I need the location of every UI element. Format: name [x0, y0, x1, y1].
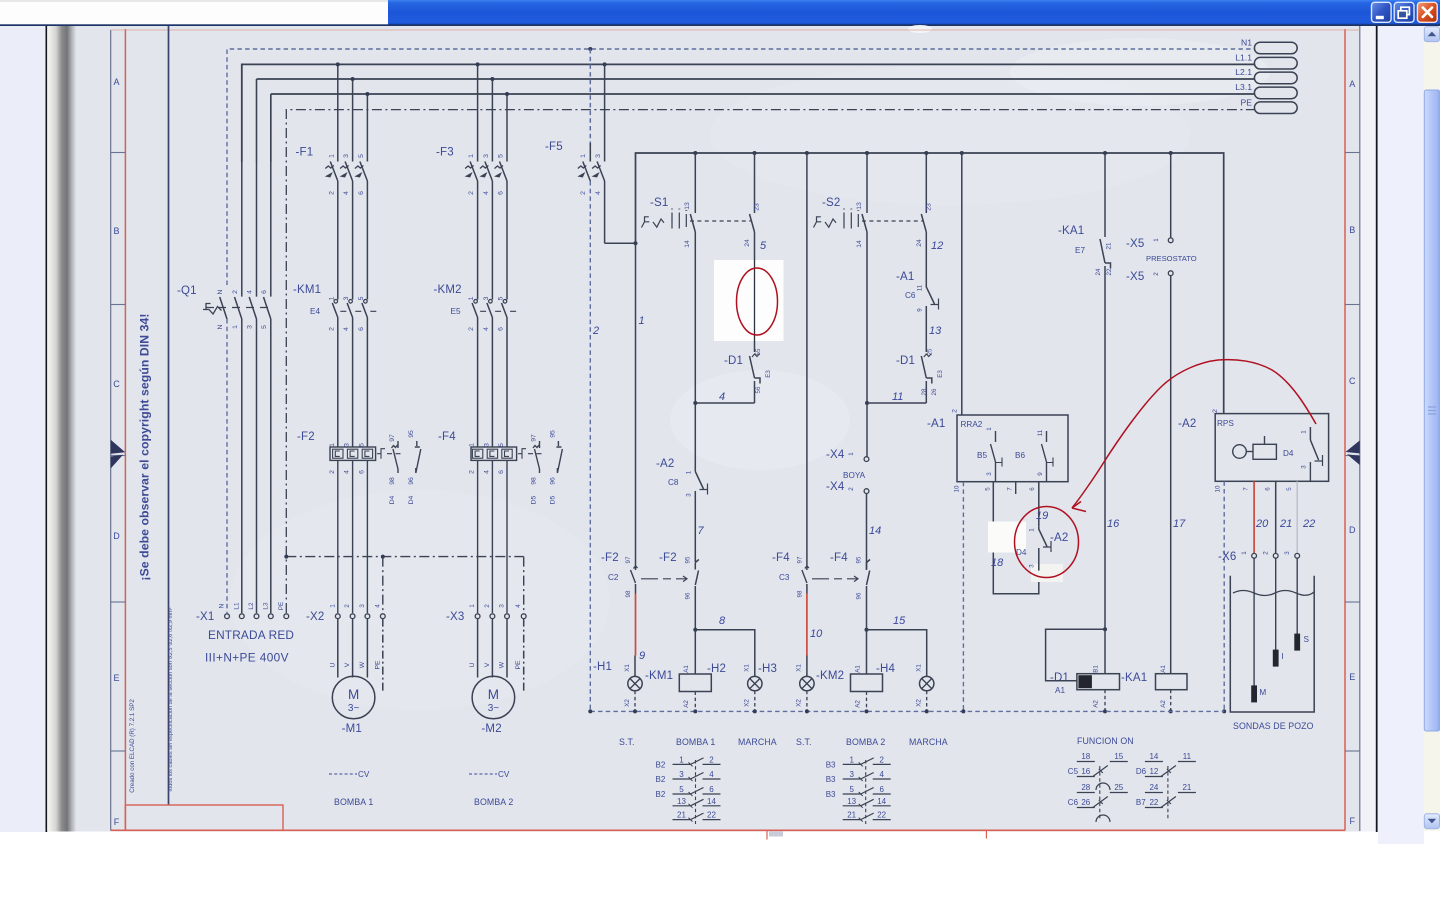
svg-text:14: 14	[684, 240, 691, 248]
svg-text:F: F	[1350, 816, 1356, 826]
svg-text:6: 6	[358, 470, 365, 474]
svg-text:6: 6	[358, 327, 365, 331]
svg-text:22: 22	[877, 811, 886, 820]
scan gutter shadow	[47, 26, 76, 832]
svg-text:V: V	[344, 662, 351, 667]
svg-text:RRA2: RRA2	[961, 420, 983, 429]
svg-text:A1: A1	[683, 665, 690, 673]
contact S1 23/24	[750, 153, 755, 352]
svg-text:4: 4	[515, 604, 522, 608]
svg-text:-H4: -H4	[876, 663, 896, 675]
svg-text:2: 2	[469, 470, 476, 474]
svg-text:20: 20	[1255, 518, 1269, 530]
svg-text:95: 95	[685, 556, 692, 563]
svg-text:B2: B2	[656, 790, 666, 799]
svg-text:CV: CV	[358, 770, 370, 779]
svg-text:3: 3	[343, 296, 350, 300]
svg-text:-KM2: -KM2	[434, 284, 462, 296]
svg-text:5: 5	[760, 240, 767, 252]
svg-text:1: 1	[469, 443, 476, 447]
svg-text:98: 98	[389, 477, 396, 485]
svg-text:-F5: -F5	[545, 141, 563, 153]
svg-text:3: 3	[686, 493, 693, 497]
svg-text:95: 95	[856, 556, 863, 563]
svg-text:B3: B3	[826, 760, 836, 769]
svg-text:12: 12	[931, 240, 943, 252]
svg-text:13: 13	[847, 797, 856, 806]
svg-text:4: 4	[483, 191, 490, 195]
svg-text:6: 6	[261, 290, 268, 294]
svg-text:A2: A2	[1093, 700, 1100, 708]
right white strip	[1378, 26, 1424, 844]
svg-text:96: 96	[408, 477, 415, 485]
title bar blue	[388, 0, 1440, 26]
svg-text:3: 3	[343, 154, 350, 158]
svg-text:5: 5	[498, 296, 505, 300]
svg-text:24: 24	[744, 239, 751, 247]
frame red line left	[124, 29, 126, 831]
svg-text:D4: D4	[408, 495, 415, 504]
S1 actuator	[642, 217, 650, 228]
svg-text:D5: D5	[549, 495, 556, 504]
svg-text:3: 3	[595, 154, 602, 158]
title bar bottom border	[0, 24, 1440, 26]
svg-text:X2: X2	[624, 699, 631, 707]
svg-text:-S2: -S2	[822, 197, 841, 209]
svg-text:X1: X1	[744, 664, 751, 672]
svg-text:-A1: -A1	[927, 418, 946, 430]
svg-text:12: 12	[1149, 767, 1158, 776]
svg-text:U: U	[329, 662, 336, 667]
svg-text:28: 28	[1081, 783, 1090, 792]
svg-text:1: 1	[848, 452, 855, 456]
svg-text:U: U	[469, 662, 476, 667]
svg-text:-X4: -X4	[826, 481, 845, 493]
svg-text:15: 15	[1114, 752, 1123, 761]
svg-text:6: 6	[1029, 487, 1036, 491]
svg-text:96: 96	[856, 592, 863, 599]
svg-text:-M1: -M1	[342, 723, 362, 735]
svg-text:L2: L2	[248, 602, 255, 610]
svg-text:CV: CV	[498, 770, 510, 779]
svg-text:25: 25	[927, 348, 934, 355]
right black page edge	[1376, 26, 1378, 832]
svg-text:N: N	[217, 289, 224, 294]
fold triangle left	[111, 440, 126, 469]
svg-text:-F3: -F3	[436, 147, 454, 159]
svg-text:26: 26	[931, 388, 938, 395]
bus PE (dash-dot)	[286, 110, 1254, 613]
frame red top	[111, 29, 1360, 31]
bottom N bus dashed	[590, 710, 1224, 712]
svg-text:-F2: -F2	[659, 552, 677, 564]
svg-text:L1: L1	[233, 602, 240, 610]
svg-text:C2: C2	[608, 573, 619, 582]
svg-text:6: 6	[709, 785, 714, 794]
svg-text:S.T.: S.T.	[619, 737, 635, 747]
svg-text:-F4: -F4	[438, 431, 456, 443]
svg-text:5: 5	[849, 785, 854, 794]
svg-text:B2: B2	[656, 760, 666, 769]
svg-text:3~: 3~	[348, 703, 360, 714]
svg-text:PE: PE	[1241, 97, 1253, 107]
scrollbar down button	[1424, 814, 1439, 829]
svg-text:1: 1	[328, 296, 335, 300]
svg-text:2: 2	[848, 487, 855, 491]
svg-text:ENTRADA RED: ENTRADA RED	[208, 628, 294, 642]
svg-text:L1.1: L1.1	[1235, 53, 1252, 63]
svg-text:1: 1	[679, 755, 684, 764]
paper light patches	[908, 25, 932, 33]
wire 22 (faint)	[1296, 481, 1298, 553]
svg-text:1: 1	[849, 755, 854, 764]
whiteout patch over wire 5	[714, 260, 784, 341]
svg-text:22: 22	[707, 811, 716, 820]
bottom white	[0, 832, 1378, 900]
svg-text:3: 3	[1284, 551, 1291, 555]
trip linkage F2 dashed	[641, 576, 687, 582]
svg-text:-X5: -X5	[1126, 238, 1145, 250]
title block red box	[125, 805, 283, 830]
motor M2	[472, 619, 524, 719]
right paper margin	[1361, 26, 1377, 832]
svg-text:55: 55	[755, 348, 762, 355]
svg-text:22: 22	[1302, 518, 1315, 530]
svg-text:97: 97	[797, 556, 804, 563]
svg-text:5: 5	[261, 325, 268, 329]
frame gray line left	[110, 30, 112, 831]
svg-text:N: N	[217, 324, 224, 329]
Q1 handle	[203, 307, 222, 315]
svg-text:6: 6	[498, 191, 505, 195]
svg-text:D6: D6	[1136, 767, 1147, 776]
svg-text:BOMBA 1: BOMBA 1	[676, 737, 715, 747]
svg-text:4: 4	[344, 470, 351, 474]
svg-text:-X1: -X1	[196, 611, 215, 623]
scrollbar track	[1424, 26, 1440, 831]
frame red line right	[1344, 29, 1346, 831]
svg-text:C6: C6	[905, 291, 916, 300]
svg-text:24: 24	[916, 239, 923, 247]
bus end capsules	[1254, 42, 1297, 113]
svg-text:C: C	[1349, 376, 1356, 386]
svg-text:-F2: -F2	[297, 431, 315, 443]
svg-text:C8: C8	[668, 478, 679, 487]
svg-text:3: 3	[483, 296, 490, 300]
svg-text:-X3: -X3	[446, 611, 465, 623]
svg-text:L3.1: L3.1	[1235, 82, 1252, 92]
svg-text:21: 21	[1182, 783, 1191, 792]
svg-text:17: 17	[1173, 518, 1186, 530]
svg-text:3: 3	[986, 472, 993, 476]
svg-text:18: 18	[991, 557, 1004, 569]
svg-text:14: 14	[869, 525, 881, 537]
svg-text:M: M	[1259, 688, 1266, 697]
svg-text:1: 1	[686, 470, 693, 474]
svg-text:E3: E3	[765, 370, 772, 378]
svg-text:21: 21	[1106, 242, 1113, 249]
svg-text:PE: PE	[374, 660, 381, 670]
svg-text:6: 6	[879, 785, 884, 794]
RRA2 N return dashed	[962, 482, 964, 712]
svg-text:-A2: -A2	[656, 458, 675, 470]
svg-text:A2: A2	[855, 700, 862, 708]
svg-text:22: 22	[1149, 798, 1158, 807]
svg-text:2: 2	[879, 755, 884, 764]
red circle annotation around A2 contact	[1015, 507, 1079, 578]
svg-text:4: 4	[247, 290, 254, 294]
control bus wire	[636, 153, 1224, 414]
RPS sensor symbol	[1233, 436, 1277, 459]
svg-text:98: 98	[797, 590, 804, 597]
svg-text:4: 4	[719, 391, 725, 403]
title block bottom ticks	[766, 831, 768, 840]
svg-text:1: 1	[639, 315, 645, 327]
svg-text:N: N	[219, 603, 226, 608]
svg-text:-KA1: -KA1	[1058, 225, 1084, 237]
svg-text:3: 3	[679, 770, 684, 779]
svg-text:2: 2	[468, 327, 475, 331]
svg-text:14: 14	[877, 797, 886, 806]
svg-text:96: 96	[549, 477, 556, 485]
inner blue margin line	[168, 26, 170, 805]
svg-text:10: 10	[954, 485, 961, 492]
svg-text:14: 14	[856, 240, 863, 248]
svg-text:A1: A1	[855, 665, 862, 673]
svg-text:-X6: -X6	[1218, 551, 1237, 563]
svg-text:3: 3	[849, 770, 854, 779]
contact S2 23/24	[921, 153, 926, 284]
svg-text:E4: E4	[310, 307, 320, 316]
svg-text:D5: D5	[531, 495, 538, 504]
svg-text:97: 97	[625, 556, 632, 563]
svg-text:E3: E3	[937, 370, 944, 378]
svg-text:-H2: -H2	[707, 663, 726, 675]
RRA2 loop wires 18/19	[993, 482, 1039, 594]
bus N1 (dashed)	[227, 49, 1254, 285]
svg-text:2: 2	[484, 604, 491, 608]
svg-text:X1: X1	[624, 664, 631, 672]
frame red bottom	[111, 829, 1345, 831]
left lavender strip	[0, 26, 46, 832]
svg-text:14: 14	[707, 797, 716, 806]
svg-text:A1: A1	[1055, 686, 1065, 695]
svg-text:95: 95	[549, 430, 556, 438]
svg-text:5: 5	[358, 154, 365, 158]
svg-text:23: 23	[754, 203, 761, 211]
svg-text:-KM1: -KM1	[293, 284, 321, 296]
probe S	[1296, 558, 1298, 634]
RPS contact D4	[1310, 427, 1322, 481]
probe M	[1253, 558, 1255, 686]
svg-text:E7: E7	[1075, 246, 1085, 255]
probe I	[1275, 558, 1277, 650]
svg-text:A1: A1	[1160, 665, 1167, 673]
svg-text:1: 1	[468, 296, 475, 300]
svg-text:A: A	[113, 77, 119, 87]
svg-text:14: 14	[1149, 752, 1158, 761]
wire from S2 to X4	[866, 403, 868, 457]
restore button	[1394, 2, 1414, 22]
svg-text:1: 1	[1241, 551, 1248, 555]
svg-text:B3: B3	[826, 775, 836, 784]
wire 15	[867, 630, 927, 677]
PE branch (dash-dot) to X2/X3	[286, 557, 523, 613]
svg-text:7: 7	[1243, 487, 1250, 491]
svg-text:6: 6	[498, 470, 505, 474]
svg-text:SONDAS DE POZO: SONDAS DE POZO	[1233, 721, 1314, 731]
bus labels	[1235, 37, 1252, 107]
svg-text:5: 5	[1286, 487, 1293, 491]
scrollbar up button	[1424, 27, 1439, 42]
svg-text:B: B	[113, 226, 119, 236]
svg-text:10: 10	[1215, 485, 1222, 492]
svg-text:-M2: -M2	[481, 723, 501, 735]
svg-text:8: 8	[719, 615, 726, 627]
svg-text:B7: B7	[1136, 798, 1146, 807]
svg-text:-A2: -A2	[1050, 532, 1069, 544]
svg-text:BOMBA 1: BOMBA 1	[334, 797, 373, 807]
svg-text:1: 1	[328, 154, 335, 158]
svg-text:4: 4	[483, 327, 490, 331]
svg-text:B5: B5	[977, 451, 987, 460]
svg-text:C: C	[113, 379, 120, 389]
svg-text:28: 28	[921, 388, 928, 395]
svg-text:9: 9	[639, 650, 645, 662]
row letters left	[113, 77, 120, 827]
svg-text:1: 1	[1029, 528, 1036, 532]
svg-text:B2: B2	[656, 775, 666, 784]
svg-text:3: 3	[483, 154, 490, 158]
svg-text:MARCHA: MARCHA	[909, 737, 948, 747]
svg-text:3~: 3~	[488, 703, 500, 714]
frame gray line right	[1359, 26, 1361, 831]
svg-text:3: 3	[1029, 564, 1036, 568]
svg-text:BOMBA 2: BOMBA 2	[474, 797, 513, 807]
svg-text:BOMBA 2: BOMBA 2	[846, 737, 885, 747]
wire 8	[695, 630, 755, 677]
svg-text:X1: X1	[796, 664, 803, 672]
svg-text:D4: D4	[389, 495, 396, 504]
svg-text:23: 23	[926, 203, 933, 211]
svg-text:96: 96	[685, 592, 692, 599]
svg-text:PRESOSTATO: PRESOSTATO	[1146, 254, 1197, 263]
svg-text:E: E	[1349, 672, 1355, 682]
svg-text:Todos los cables sin especific: Todos los cables sin especificación de l…	[168, 607, 174, 792]
svg-text:98: 98	[531, 477, 538, 485]
svg-text:5: 5	[498, 443, 505, 447]
svg-text:-Q1: -Q1	[177, 285, 197, 297]
svg-text:-F2: -F2	[601, 552, 619, 564]
svg-text:21: 21	[677, 811, 686, 820]
svg-text:1: 1	[468, 154, 475, 158]
svg-text:Creado con ELCAD (R) 7.2.1 SP2: Creado con ELCAD (R) 7.2.1 SP2	[129, 699, 136, 793]
svg-text:5: 5	[358, 296, 365, 300]
svg-text:B: B	[1349, 225, 1355, 235]
svg-text:-X5: -X5	[1126, 271, 1145, 283]
svg-text:97: 97	[531, 434, 538, 442]
svg-text:4: 4	[374, 604, 381, 608]
Q1 linkage dashes	[206, 307, 268, 309]
svg-text:W: W	[359, 661, 366, 668]
svg-text:D4: D4	[1283, 449, 1294, 458]
close button	[1417, 2, 1437, 22]
svg-text:N1: N1	[1241, 37, 1252, 47]
svg-text:2: 2	[1153, 272, 1160, 276]
svg-text:4: 4	[343, 327, 350, 331]
svg-text:1: 1	[329, 443, 336, 447]
trip linkage F4 dashed	[812, 576, 858, 582]
svg-text:-H1: -H1	[593, 661, 612, 673]
svg-text:5: 5	[358, 443, 365, 447]
svg-text:A2: A2	[1160, 700, 1167, 708]
wire 10 (red)	[806, 594, 808, 656]
svg-text:16: 16	[1107, 518, 1120, 530]
svg-text:25: 25	[1114, 783, 1123, 792]
well tank	[1230, 576, 1314, 712]
svg-text:1: 1	[1153, 238, 1160, 242]
svg-text:M: M	[348, 687, 359, 702]
svg-text:3: 3	[1301, 465, 1308, 469]
svg-text:-X4: -X4	[826, 449, 845, 461]
svg-text:13: 13	[856, 202, 863, 210]
bus L2.1	[257, 78, 1255, 80]
svg-text:3: 3	[344, 443, 351, 447]
svg-text:-F1: -F1	[296, 147, 314, 159]
svg-text:III+N+PE 400V: III+N+PE 400V	[205, 651, 289, 665]
svg-text:4: 4	[709, 770, 714, 779]
svg-text:4: 4	[343, 191, 350, 195]
svg-text:D: D	[113, 531, 120, 541]
S1 linkage dashed	[690, 220, 751, 222]
svg-text:11: 11	[892, 391, 903, 403]
svg-text:C6: C6	[1068, 798, 1079, 807]
svg-text:X2: X2	[796, 699, 803, 707]
svg-text:2: 2	[328, 191, 335, 195]
svg-text:21: 21	[847, 811, 856, 820]
svg-text:S.T.: S.T.	[796, 737, 812, 747]
svg-text:24: 24	[1149, 783, 1158, 792]
svg-text:M: M	[488, 687, 499, 702]
svg-text:6: 6	[358, 191, 365, 195]
svg-text:95: 95	[408, 430, 415, 438]
row ticks	[111, 153, 1360, 752]
row letters right	[1349, 79, 1356, 826]
svg-text:9: 9	[1037, 472, 1044, 476]
svg-text:5: 5	[498, 154, 505, 158]
svg-text:16: 16	[1081, 767, 1090, 776]
svg-text:L2.1: L2.1	[1235, 67, 1252, 77]
svg-text:22: 22	[1106, 268, 1113, 275]
svg-text:9: 9	[917, 308, 924, 312]
svg-text:E: E	[113, 673, 119, 683]
svg-text:13: 13	[684, 202, 691, 210]
scrollbar thumb	[1424, 90, 1439, 731]
svg-text:B6: B6	[1015, 451, 1025, 460]
svg-text:3: 3	[499, 604, 506, 608]
N wire below Q1 (dashed)	[226, 319, 228, 613]
svg-text:C3: C3	[779, 573, 790, 582]
svg-text:-F4: -F4	[830, 552, 848, 564]
svg-text:FUNCION ON: FUNCION ON	[1077, 736, 1134, 746]
svg-text:6: 6	[1265, 487, 1272, 491]
svg-text:-KM2: -KM2	[816, 670, 844, 682]
svg-text:2: 2	[329, 470, 336, 474]
svg-text:1: 1	[580, 154, 587, 158]
svg-text:1: 1	[1301, 430, 1308, 434]
svg-text:10: 10	[810, 628, 823, 640]
svg-text:A: A	[1349, 79, 1355, 89]
